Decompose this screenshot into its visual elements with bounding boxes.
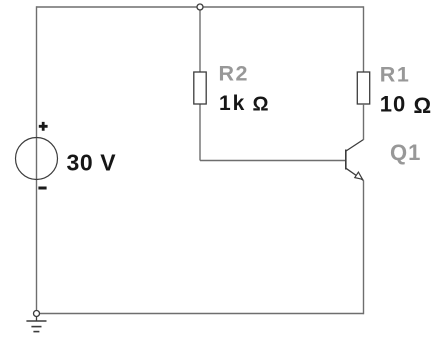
svg-text:R1: R1: [380, 62, 410, 86]
svg-text:Ω: Ω: [253, 93, 269, 115]
ground bar 2: [31, 326, 41, 328]
svg-text:30 V: 30 V: [67, 150, 117, 176]
wire bottom rail: [37, 313, 364, 315]
transistor Q1 emitter arrowhead: [355, 172, 363, 179]
ground bar 3: [33, 331, 39, 333]
wire base horizontal: [200, 160, 346, 162]
transistor Q1 emitter diagonal: [346, 168, 364, 180]
resistor R2 body: [194, 72, 206, 104]
ground bar 1: [26, 320, 46, 322]
svg-text:R2: R2: [219, 62, 249, 86]
svg-text:Q1: Q1: [390, 140, 421, 165]
wire right rail upper (to R1): [363, 6, 365, 104]
svg-text:1k: 1k: [219, 92, 246, 115]
svg-text:Ω: Ω: [414, 93, 432, 118]
wire R2 branch vertical: [199, 7, 201, 161]
transistor Q1 collector diagonal: [346, 140, 364, 152]
voltage source V1 circle: [16, 138, 58, 180]
resistor R1 body: [357, 72, 369, 104]
wire emitter vertical down: [363, 181, 365, 315]
wire top rail: [37, 6, 364, 8]
transistor Q1 collector stub: [363, 104, 365, 140]
plus sign of source: [39, 122, 48, 131]
node top junction: [197, 4, 203, 10]
svg-text:10: 10: [380, 92, 406, 117]
wire left rail: [36, 6, 38, 313]
ground stem: [36, 317, 38, 322]
transistor Q1 base bar: [345, 150, 347, 170]
node bottom ground junction: [34, 311, 40, 317]
minus sign of source: [38, 187, 46, 190]
